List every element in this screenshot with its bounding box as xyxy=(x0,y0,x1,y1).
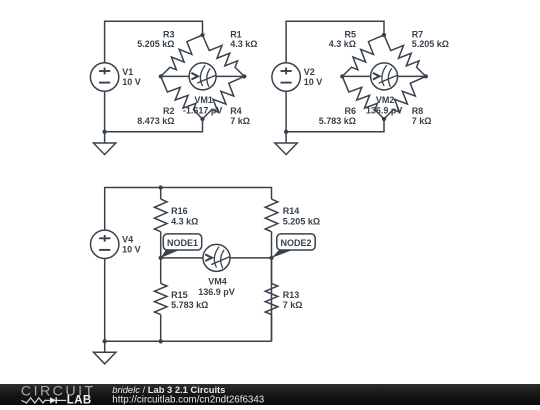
value label 136.9 pV (VM4) xyxy=(198,287,235,297)
svg-text:VM2: VM2 xyxy=(376,95,395,105)
label VM1 xyxy=(194,95,213,105)
node junction xyxy=(242,74,246,78)
svg-text:R7: R7 xyxy=(412,29,424,39)
resistor R14 xyxy=(265,199,278,258)
node junction xyxy=(340,74,344,78)
wire xyxy=(216,75,244,77)
svg-text:V4: V4 xyxy=(122,234,133,244)
label R1 xyxy=(230,29,242,39)
resistor R2 xyxy=(161,76,203,119)
svg-text:8.473 kΩ: 8.473 kΩ xyxy=(137,116,174,126)
node junction xyxy=(159,74,163,78)
svg-text:136.9 pV: 136.9 pV xyxy=(198,287,235,297)
footer title text xyxy=(112,384,225,395)
svg-text:136.9 pV: 136.9 pV xyxy=(366,106,403,116)
svg-text:R5: R5 xyxy=(344,29,356,39)
svg-text:5.205 kΩ: 5.205 kΩ xyxy=(137,39,174,49)
svg-text:10 V: 10 V xyxy=(122,244,141,254)
label V2 xyxy=(304,67,315,77)
svg-text:-1.617 pV: -1.617 pV xyxy=(183,106,223,116)
svg-text:4.3 kΩ: 4.3 kΩ xyxy=(329,39,356,49)
wire xyxy=(105,119,203,132)
wire xyxy=(104,259,106,342)
wire xyxy=(286,119,384,132)
voltage source V2 xyxy=(272,63,300,91)
svg-text:R6: R6 xyxy=(344,106,356,116)
label R13 xyxy=(283,290,300,300)
node junction xyxy=(159,185,163,189)
label V4 xyxy=(122,234,133,244)
svg-text:LAB: LAB xyxy=(67,395,92,405)
value label 5.205 kOhm (R3) xyxy=(137,39,174,49)
value label 10 V (V2) xyxy=(304,77,323,87)
voltage source V4 xyxy=(91,230,119,258)
value label 4.3 kOhm (R1) xyxy=(230,39,257,49)
wire xyxy=(161,75,189,77)
label VM4 xyxy=(208,276,227,286)
value label 5.783 kOhm (R15) xyxy=(171,300,208,310)
ground xyxy=(94,352,116,364)
svg-text:7 kΩ: 7 kΩ xyxy=(412,116,432,126)
svg-text:5.783 kΩ: 5.783 kΩ xyxy=(319,116,356,126)
svg-text:V1: V1 xyxy=(122,67,133,77)
svg-text:5.205 kΩ: 5.205 kΩ xyxy=(283,216,320,226)
node junction xyxy=(269,256,273,260)
svg-text:5.205 kΩ: 5.205 kΩ xyxy=(412,39,449,49)
node junction xyxy=(200,33,204,37)
wire xyxy=(285,132,287,143)
resistor R6 xyxy=(342,76,384,119)
wire xyxy=(104,132,106,143)
svg-text:VM4: VM4 xyxy=(208,276,227,286)
svg-text:R13: R13 xyxy=(283,290,300,300)
node junction xyxy=(200,117,204,121)
ground xyxy=(275,143,297,155)
node junction xyxy=(159,256,163,260)
wire xyxy=(105,188,272,231)
wire xyxy=(271,258,273,341)
node junction xyxy=(382,117,386,121)
value label 4.3 kOhm (R5) xyxy=(329,39,356,49)
label R7 xyxy=(412,29,424,39)
resistor R13 xyxy=(265,258,278,341)
voltmeter VM4 xyxy=(203,244,230,271)
label R15 xyxy=(171,290,188,300)
value label 5.783 kOhm (R6) xyxy=(319,116,356,126)
value label 8.473 kOhm (R2) xyxy=(137,116,174,126)
wire xyxy=(286,21,384,63)
svg-text:R3: R3 xyxy=(163,29,175,39)
value label 10 V (V1) xyxy=(122,77,141,87)
svg-text:V2: V2 xyxy=(304,67,315,77)
svg-text:R15: R15 xyxy=(171,290,188,300)
value label 7 kOhm (R8) xyxy=(412,116,432,126)
resistor R5 xyxy=(342,35,384,76)
value label 4.3 kOhm (R16) xyxy=(171,216,198,226)
svg-text:5.783 kΩ: 5.783 kΩ xyxy=(171,300,208,310)
ground xyxy=(93,143,115,155)
node NODE1 xyxy=(161,234,202,258)
svg-text:bridelc / Lab 3 2.1 Circuits: bridelc / Lab 3 2.1 Circuits xyxy=(112,384,225,395)
svg-text:4.3 kΩ: 4.3 kΩ xyxy=(171,216,198,226)
resistor R8 xyxy=(384,76,426,119)
svg-text:10 V: 10 V xyxy=(304,77,323,87)
value label -1.617 pV (VM1) xyxy=(183,106,223,116)
wire xyxy=(285,91,287,132)
value label 136.9 pV (VM2) xyxy=(366,106,403,116)
label R16 xyxy=(171,206,188,216)
wire xyxy=(398,75,426,77)
svg-text:VM1: VM1 xyxy=(194,95,213,105)
node NODE2 xyxy=(272,234,316,258)
resistor R1 xyxy=(203,35,245,76)
value label 7 kOhm (R13) xyxy=(283,300,303,310)
resistor R15 xyxy=(154,258,167,341)
label R2 xyxy=(163,106,175,116)
label R3 xyxy=(163,29,175,39)
svg-text:NODE1: NODE1 xyxy=(167,238,198,248)
wire xyxy=(161,257,203,259)
value label 5.205 kOhm (R7) xyxy=(412,39,449,49)
label R4 xyxy=(230,106,242,116)
label VM2 xyxy=(376,95,395,105)
wire xyxy=(342,75,370,77)
label R14 xyxy=(283,206,300,216)
voltmeter VM2 xyxy=(371,63,398,90)
svg-text:R8: R8 xyxy=(412,106,424,116)
CircuitLab logo xyxy=(21,383,96,406)
svg-text:4.3 kΩ: 4.3 kΩ xyxy=(230,39,257,49)
svg-text:7 kΩ: 7 kΩ xyxy=(230,116,250,126)
voltage source V1 xyxy=(90,63,118,91)
value label 5.205 kOhm (R14) xyxy=(283,216,320,226)
svg-text:R4: R4 xyxy=(230,106,242,116)
wire xyxy=(104,91,106,132)
value label 7 kOhm (R4) xyxy=(230,116,250,126)
wire xyxy=(105,21,203,63)
value label 10 V (V4) xyxy=(122,244,141,254)
resistor R16 xyxy=(154,188,167,258)
label R5 xyxy=(344,29,356,39)
svg-text:7 kΩ: 7 kΩ xyxy=(283,300,303,310)
wire xyxy=(104,341,106,352)
node junction xyxy=(424,74,428,78)
footer url text xyxy=(112,395,264,406)
svg-text:R1: R1 xyxy=(230,29,242,39)
wire xyxy=(105,340,272,342)
wire xyxy=(230,257,272,259)
svg-text:10 V: 10 V xyxy=(122,77,141,87)
svg-text:http://circuitlab.com/cn2ndt26: http://circuitlab.com/cn2ndt26f6343 xyxy=(112,395,264,405)
label R6 xyxy=(344,106,356,116)
svg-text:NODE2: NODE2 xyxy=(280,238,311,248)
svg-text:R2: R2 xyxy=(163,106,175,116)
node junction xyxy=(102,130,106,134)
label R8 xyxy=(412,106,424,116)
node junction xyxy=(159,339,163,343)
resistor R3 xyxy=(161,35,203,76)
svg-text:R16: R16 xyxy=(171,206,188,216)
footer bar xyxy=(0,384,540,405)
resistor R7 xyxy=(384,35,426,76)
resistor R4 xyxy=(203,76,245,119)
node junction xyxy=(103,339,107,343)
voltmeter VM1 xyxy=(189,63,216,90)
node junction xyxy=(382,33,386,37)
svg-text:R14: R14 xyxy=(283,206,300,216)
node junction xyxy=(284,130,288,134)
label V1 xyxy=(122,67,133,77)
